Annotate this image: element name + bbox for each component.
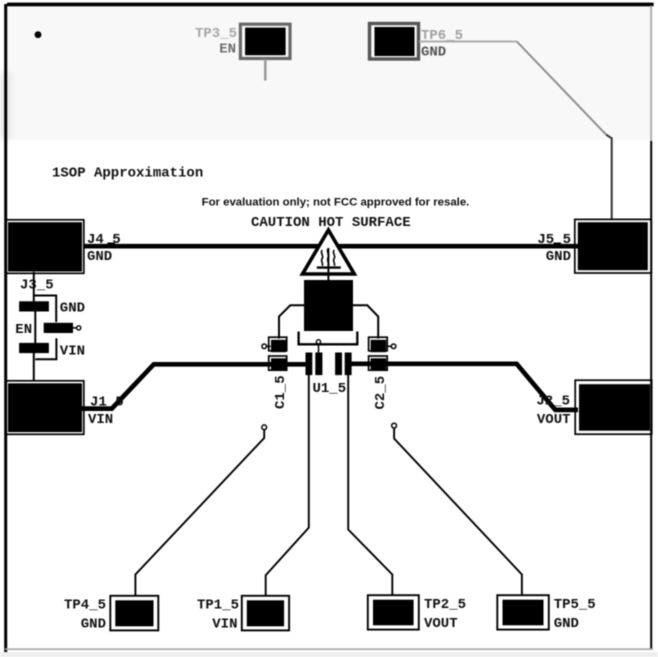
wire J4 to J3	[33, 272, 35, 303]
svg-text:GND: GND	[554, 616, 579, 632]
pad J3 VIN	[19, 343, 49, 353]
svg-text:For evaluation only; not FCC a: For evaluation only; not FCC approved fo…	[202, 196, 470, 208]
svg-text:TP5_5: TP5_5	[554, 597, 596, 613]
pin stub circle U1	[318, 344, 320, 352]
wire IC left to C1	[279, 305, 304, 338]
wire to TP4_5	[135, 430, 264, 597]
test point TP3_5 pad	[240, 24, 290, 58]
IC U1_5 body	[304, 280, 353, 331]
label J5_5 underscore bump	[554, 243, 561, 246]
svg-text:TP1_5: TP1_5	[197, 598, 239, 614]
wire IC right to C2	[353, 305, 378, 338]
svg-text:VIN: VIN	[60, 343, 85, 359]
wire TP6_5 to J5_5	[419, 41, 517, 43]
svg-text:C1_5: C1_5	[273, 375, 289, 409]
svg-text:U1_5: U1_5	[313, 381, 347, 397]
test point TP1_5 pad	[242, 596, 289, 631]
U1 pin 1	[306, 353, 313, 376]
label J4_5 underscore bump	[107, 243, 114, 246]
caution triangle	[303, 230, 355, 274]
svg-text:TP2_5: TP2_5	[424, 597, 466, 613]
capacitor C1_5 top pad	[269, 337, 287, 352]
wire VOUT trace U1 to J2_5	[351, 364, 578, 410]
wire VIN trace J1_5 to U1	[81, 364, 306, 408]
svg-text:EN: EN	[15, 322, 32, 338]
node TP5 via circle	[392, 423, 397, 428]
bracket under IC	[299, 332, 358, 345]
svg-text:VIN: VIN	[212, 616, 237, 632]
capacitor C2_5 bottom pad	[369, 356, 388, 371]
svg-text:GND: GND	[421, 45, 446, 61]
U1 pin 3	[335, 353, 342, 376]
svg-text:GND: GND	[546, 249, 571, 265]
svg-text:CAUTION HOT SURFACE: CAUTION HOT SURFACE	[251, 215, 411, 231]
connector J1_5 pad	[6, 381, 84, 435]
svg-text:TP4_5: TP4_5	[64, 598, 106, 614]
svg-text:C2_5: C2_5	[373, 376, 389, 410]
svg-text:J2_5: J2_5	[536, 393, 570, 409]
capacitor C2_5 top pad	[369, 337, 388, 352]
svg-text:VOUT: VOUT	[537, 412, 571, 428]
pad J3 GND	[19, 301, 49, 311]
capacitor C1_5 bottom pad	[269, 356, 287, 371]
test point TP2_5 pad	[368, 595, 419, 629]
svg-text:TP3_5: TP3_5	[195, 26, 237, 42]
svg-text:1SOP Approximation: 1SOP Approximation	[52, 166, 203, 182]
wire TP3_5 stub	[264, 59, 267, 81]
test point TP4_5 pad	[110, 596, 158, 631]
svg-text:J3_5: J3_5	[20, 277, 54, 293]
U1 pin 2	[315, 353, 322, 376]
wire J3 mid	[34, 311, 36, 343]
svg-text:GND: GND	[81, 616, 106, 632]
wire GND trace J4_5 to J5_5	[83, 244, 578, 249]
wire J3 L-branch	[34, 296, 56, 323]
node C1 left circle	[267, 345, 271, 347]
wire U1 pin4 to TP2_5	[348, 374, 392, 596]
svg-text:GND: GND	[60, 301, 85, 317]
wire to TP5_5	[394, 428, 522, 596]
node EN circle	[73, 327, 76, 329]
fiducial dot	[35, 31, 42, 38]
connector J2_5 pad	[575, 380, 652, 434]
svg-text:GND: GND	[87, 249, 112, 265]
wire U1 pin1 to TP1_5	[266, 374, 309, 597]
node C2 right circle	[387, 345, 391, 347]
wire triangle stem	[327, 248, 329, 290]
connector J4_5 pad	[6, 220, 84, 273]
U1 pin 4	[345, 353, 352, 376]
svg-text:EN: EN	[219, 42, 236, 58]
wire J3 lower branch	[35, 338, 56, 359]
svg-text:VIN: VIN	[88, 412, 113, 428]
node TP4 via circle	[262, 425, 267, 430]
connector J5_5 pad	[575, 219, 652, 273]
pad J3 EN	[44, 323, 73, 333]
test point TP5_5 pad	[497, 595, 549, 629]
svg-text:J1_5: J1_5	[90, 395, 124, 411]
test point TP6_5 pad	[370, 24, 419, 60]
wire J3 to J1	[33, 353, 35, 382]
svg-text:VOUT: VOUT	[424, 616, 458, 632]
